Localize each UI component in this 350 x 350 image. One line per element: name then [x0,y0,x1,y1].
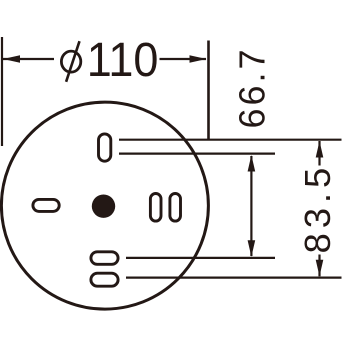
dia110 left arrowhead [3,55,20,63]
center hole (filled dot) [92,195,115,218]
leader line 3 from bottom slots (y 258) [126,257,275,259]
83.5 bottom arrowhead [316,260,324,277]
dia110 dimension line left segment [3,58,54,60]
left horizontal slot [33,199,59,211]
right vertical slot pair: slot 2 [170,194,181,222]
phi symbol loop [61,51,80,72]
66.7 top arrowhead [248,155,256,172]
66.7 dimension line [250,156,252,256]
right vertical slot pair: slot 1 [150,194,161,222]
bottom horizontal slot upper [91,252,118,264]
83.5 top arrow stem [318,141,320,166]
83.5 top arrowhead [316,141,324,158]
dia110 right arrowhead [190,55,207,63]
bottom horizontal slot lower [91,273,118,286]
leader line 2 from top slot (y 153.5) [119,153,275,155]
leader line 1 from top slot (y 140) [119,139,342,141]
right extension line of dia 110 [207,41,210,141]
leader line 4 from bottom slots (y 277.5) [126,277,342,279]
svg-text:66.7: 66.7 [232,46,273,128]
dia110 dimension line right segment [160,58,207,60]
83.5 bottom arrow stem [318,255,320,277]
svg-text:83.5: 83.5 [297,163,338,254]
top vertical slot [99,134,111,161]
svg-text:110: 110 [87,33,159,87]
phi symbol stem [66,41,79,82]
left extension line of dia 110 [1,37,3,146]
mounting plate circle [1,102,208,309]
66.7 bottom arrowhead [248,240,256,256]
